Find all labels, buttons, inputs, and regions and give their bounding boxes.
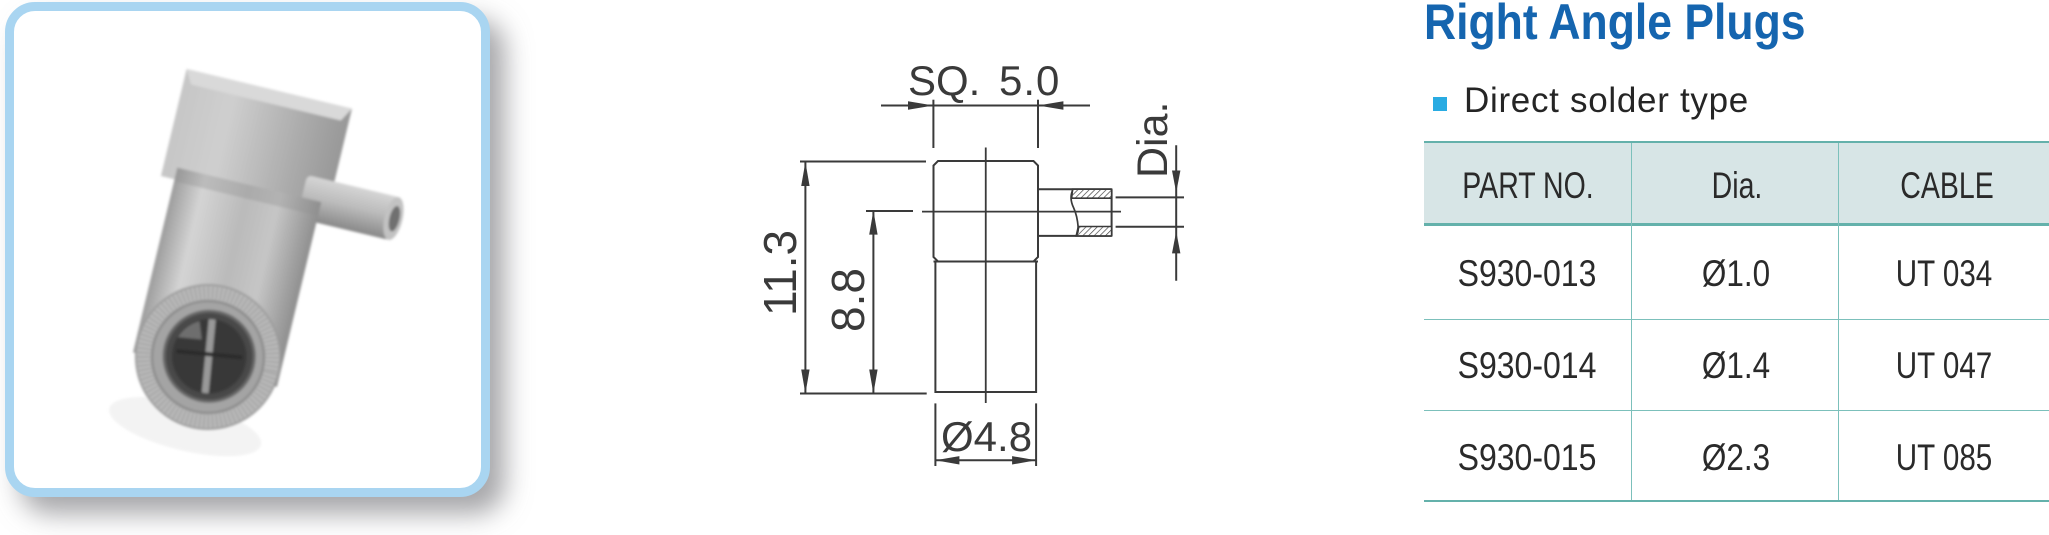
dim 11.3: bottom extension line bbox=[800, 393, 927, 395]
arrow 8.8 top bbox=[869, 211, 877, 235]
row3 cable bbox=[1896, 437, 1993, 479]
photo: barrel front circular face bbox=[121, 270, 295, 444]
row1 dia bbox=[1701, 253, 1769, 295]
dim 11.3: top extension line bbox=[800, 161, 926, 163]
photo: barrel shoulder band bbox=[174, 168, 321, 216]
arrow SQ right bbox=[1038, 101, 1063, 110]
table bottom border bbox=[1424, 500, 2049, 502]
photo: stub end face bbox=[380, 195, 408, 242]
heading bbox=[1424, 0, 1806, 51]
row3 dia bbox=[1701, 437, 1769, 479]
arrow 11.3 top bbox=[801, 162, 809, 186]
bullet square bbox=[1433, 97, 1447, 111]
photo: bore bbox=[155, 302, 264, 411]
arrow 4.8 left bbox=[935, 456, 959, 464]
photo: knurled rim bbox=[131, 280, 285, 434]
header CABLE bbox=[1900, 165, 1993, 207]
photo: cable stub cylinder bbox=[297, 175, 401, 240]
photo: block top face bbox=[183, 69, 352, 122]
drawing: horizontal centerline bbox=[922, 211, 1121, 213]
row1 cable bbox=[1896, 253, 1993, 295]
dim dia 4.8: extension lines bbox=[934, 403, 936, 466]
row1 part no bbox=[1457, 253, 1596, 295]
dim dia 4.8: dimension line bbox=[935, 459, 1036, 461]
dim SQ 5.0: dimension line bbox=[881, 105, 1090, 107]
table column separator 2 bbox=[1838, 143, 1840, 500]
drawing: body bottom edge bbox=[934, 261, 1039, 263]
photo: soft shadow below barrel bbox=[104, 385, 267, 468]
row2 dia bbox=[1701, 345, 1769, 387]
table row separator 1 bbox=[1424, 319, 2049, 321]
row2 part no bbox=[1457, 345, 1596, 387]
technical drawing bbox=[800, 100, 1184, 466]
row3 part no bbox=[1457, 437, 1596, 479]
table row separator 2 bbox=[1424, 410, 2049, 412]
drawing: bore S-curve bbox=[1071, 190, 1078, 236]
connector photo bbox=[100, 69, 425, 488]
arrow 11.3 bottom bbox=[801, 370, 809, 394]
photo: inner contact bbox=[163, 310, 255, 402]
drawing: lower cylinder bbox=[935, 262, 1036, 393]
photo: rim step ring bbox=[140, 289, 275, 424]
photo: square body block front face bbox=[161, 69, 352, 216]
dim 8.8: dimension line bbox=[872, 211, 874, 394]
dim Dia.: extension lines bbox=[1116, 196, 1184, 198]
dim Dia.: dimension line bbox=[1175, 145, 1177, 281]
drawing: vertical centerline bbox=[985, 148, 987, 404]
subtitle bbox=[1464, 81, 1749, 121]
arrow Dia up bbox=[1172, 231, 1180, 253]
drawing: square body outline bbox=[934, 161, 1039, 262]
row2 cable bbox=[1896, 345, 1993, 387]
table column separator 1 bbox=[1631, 143, 1633, 500]
drawing: stub hatch top band bbox=[1072, 189, 1112, 198]
photo panel rounded frame bbox=[5, 2, 490, 497]
drawing: cable stub outline bbox=[1038, 189, 1112, 236]
dim 11.3: dimension line bbox=[804, 162, 806, 394]
arrow Dia down bbox=[1172, 171, 1180, 193]
arrow 4.8 right bbox=[1012, 456, 1036, 464]
header PART NO. bbox=[1462, 165, 1593, 207]
table header background bbox=[1424, 143, 2049, 223]
dim SQ 5.0: extension lines bbox=[932, 100, 934, 148]
table header bottom border bbox=[1424, 223, 2049, 225]
arrow SQ left bbox=[908, 101, 933, 110]
dim 8.8: top extension line bbox=[866, 210, 913, 212]
photo: barrel bbox=[133, 168, 321, 387]
arrow 8.8 bottom bbox=[869, 370, 877, 394]
drawing: stub hatch bottom band bbox=[1076, 227, 1111, 236]
table top border bbox=[1424, 141, 2049, 143]
header Dia. bbox=[1711, 165, 1762, 207]
